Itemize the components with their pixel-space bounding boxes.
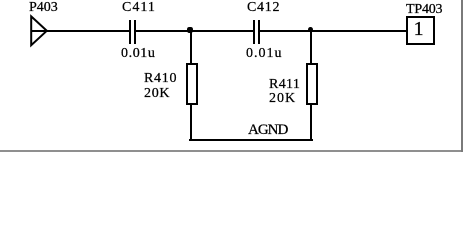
sheet border (decorative) bbox=[0, 150, 463, 152]
wire: R410 to AGND rail bbox=[190, 104, 192, 141]
wire: junction down to R410 bbox=[190, 31, 192, 63]
label R410 bbox=[144, 72, 177, 86]
junction: C412/R411 node bbox=[308, 27, 313, 32]
label TP403 bbox=[406, 3, 442, 17]
test point TP403 bbox=[406, 16, 435, 45]
wire: C411 to C412 bbox=[134, 30, 253, 32]
value 0.01u (C411) bbox=[121, 47, 156, 61]
capacitor C412 bbox=[253, 20, 255, 44]
wire: AGND bottom rail bbox=[189, 139, 313, 141]
wire: R411 to AGND rail bbox=[310, 104, 312, 141]
wire: P403 to C411 bbox=[31, 30, 130, 32]
label C412 bbox=[247, 1, 280, 15]
node AGND label bbox=[248, 123, 287, 138]
capacitor C411 bbox=[129, 20, 131, 44]
wire: C412 to TP403 bbox=[258, 30, 406, 32]
value 20K (R410) bbox=[144, 87, 170, 101]
label P403 bbox=[29, 1, 58, 15]
connector P403 bbox=[0, 0, 60, 60]
resistor R411 bbox=[306, 63, 318, 105]
value 0.01u (C412) bbox=[246, 47, 283, 61]
label C411 bbox=[122, 1, 156, 15]
value 20K (R411) bbox=[269, 92, 296, 106]
pin number 1 (TP403) bbox=[414, 19, 424, 39]
wire: junction down to R411 bbox=[310, 31, 312, 63]
junction: C411/R410 node bbox=[187, 27, 193, 33]
resistor R410 bbox=[186, 63, 198, 105]
label R411 bbox=[269, 78, 300, 92]
